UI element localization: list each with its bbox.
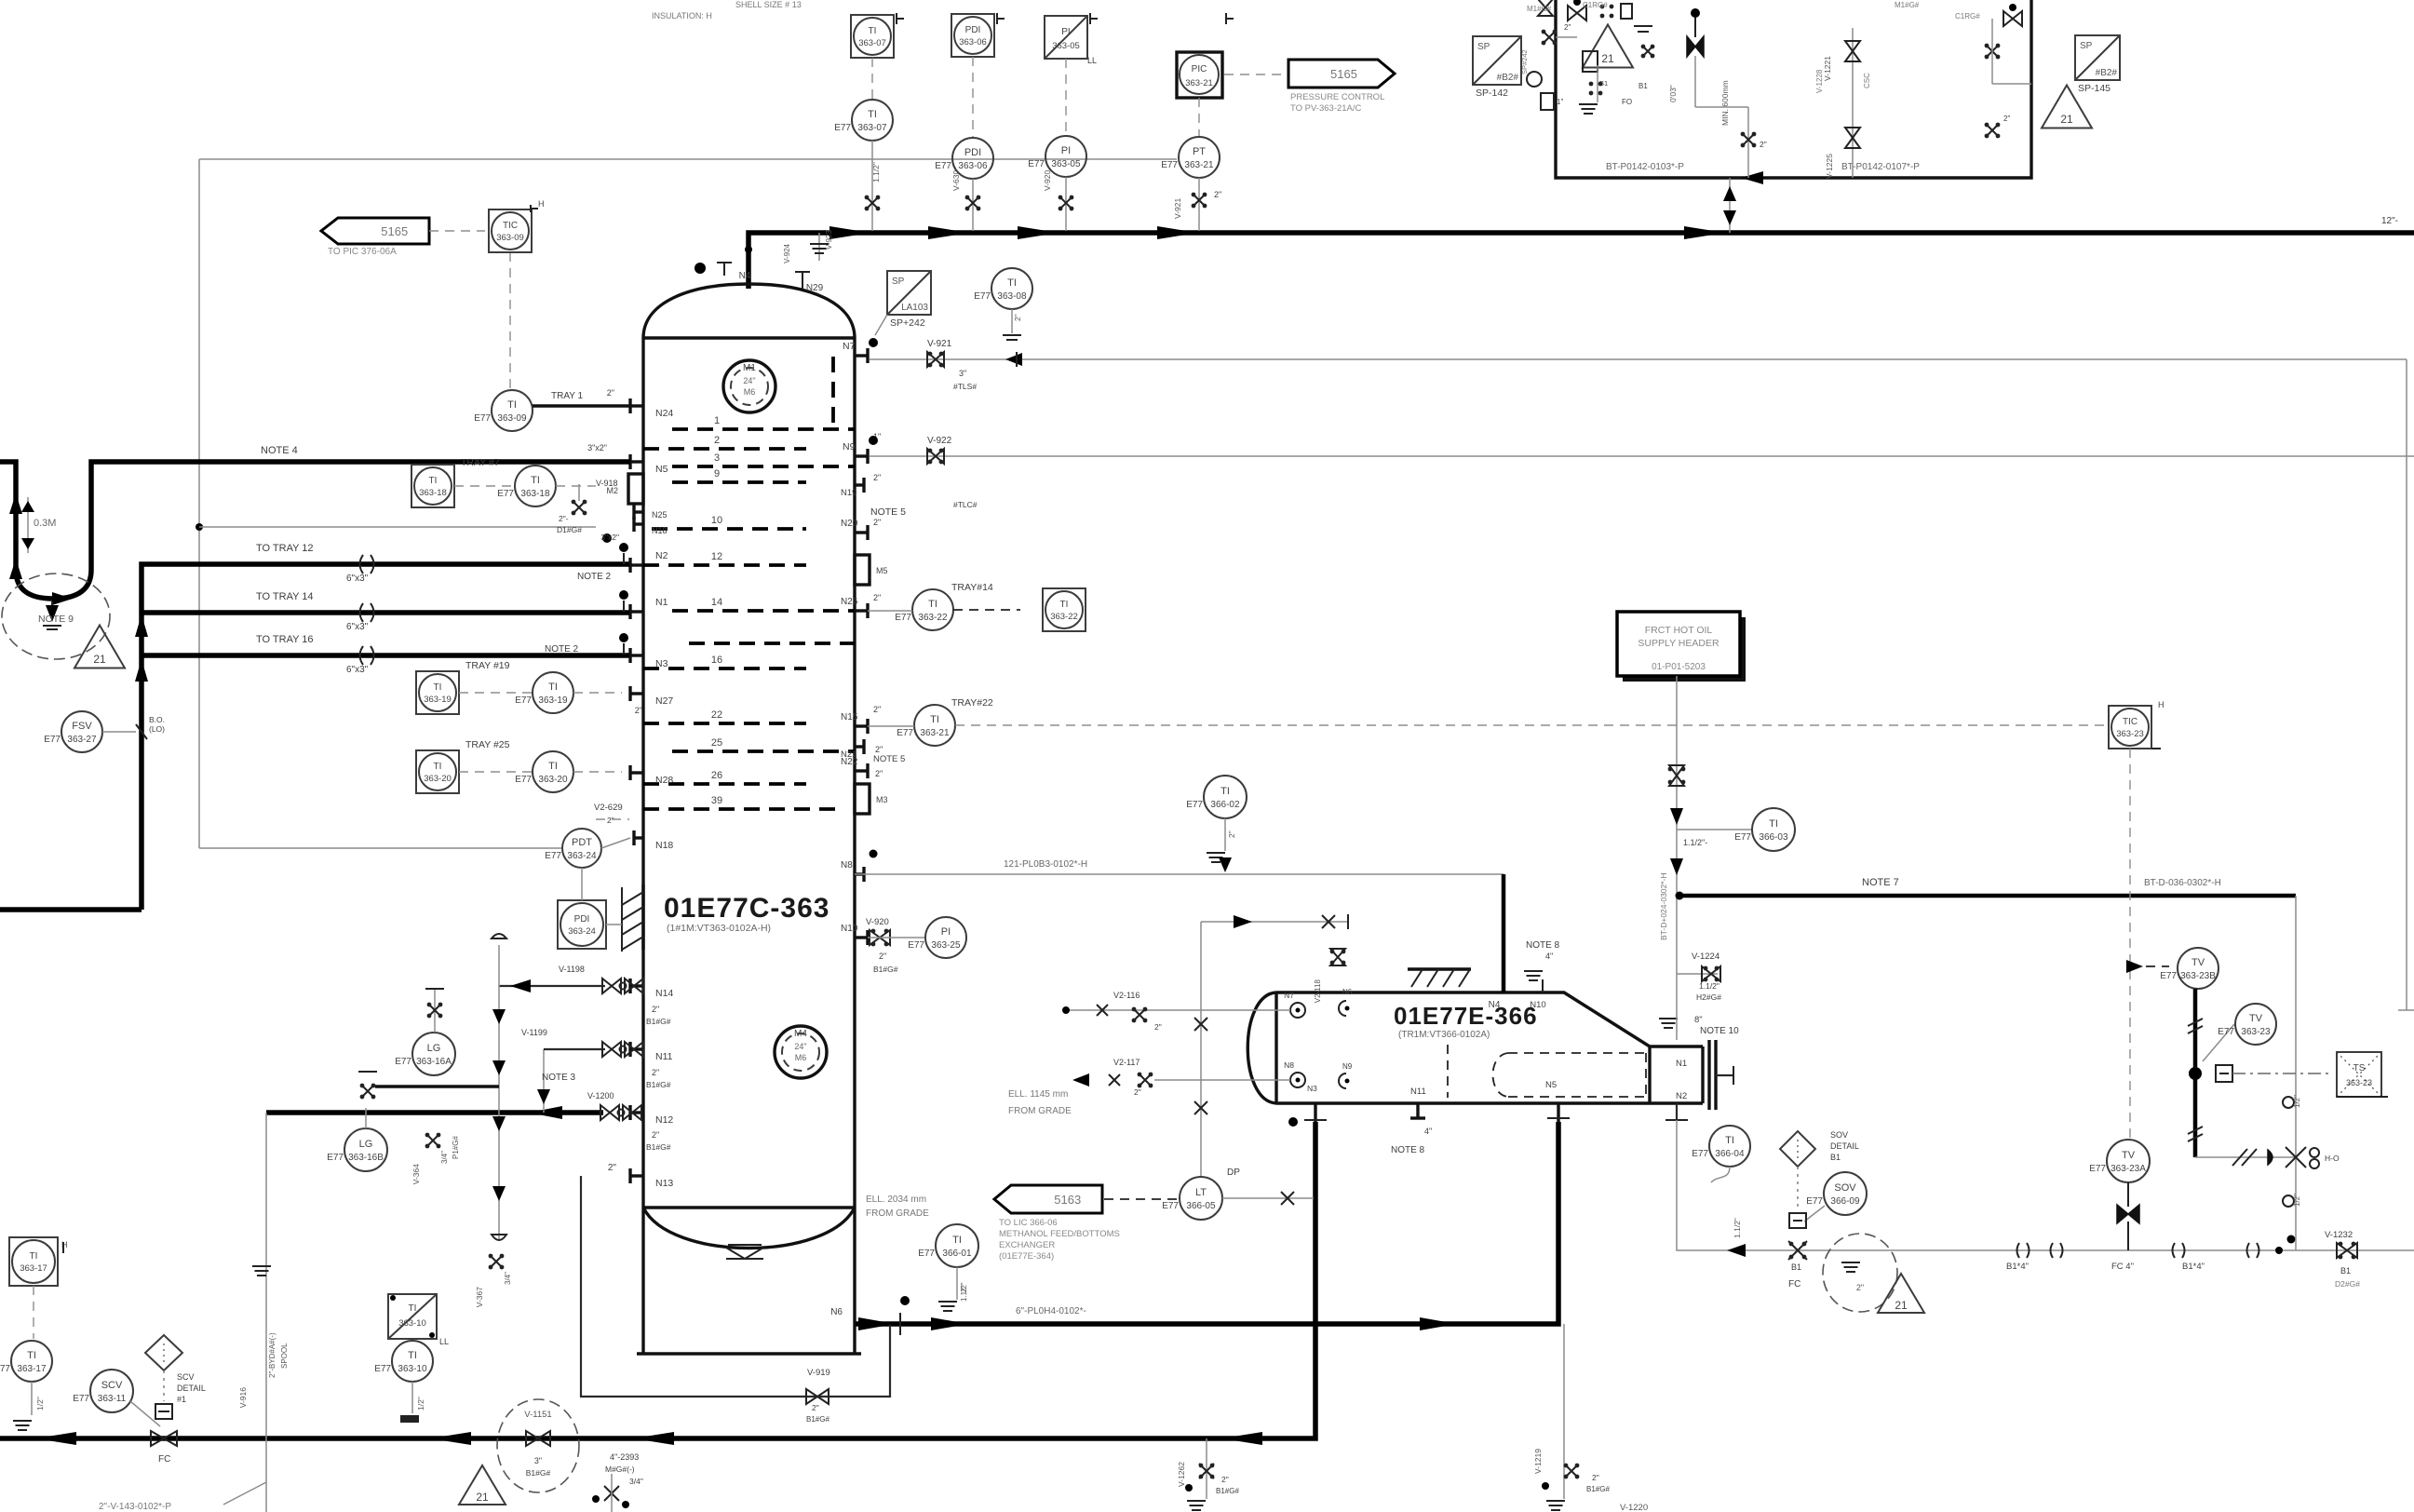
instrument TS 363-23 square [2337, 1052, 2381, 1097]
flow arrow overhead line [1157, 226, 1198, 239]
nozzle N11 bottom stub [1416, 1103, 1419, 1118]
svg-text:E77: E77 [1806, 1196, 1823, 1207]
frame line to PDT [199, 847, 562, 849]
svg-text:PDI: PDI [965, 25, 981, 35]
svg-text:N6: N6 [830, 1307, 843, 1317]
flow arrows on riser [135, 614, 148, 637]
svg-text:2": 2" [652, 1130, 659, 1140]
svg-text:2": 2" [873, 705, 881, 714]
tray 1 dashed [672, 427, 855, 431]
svg-text:E77: E77 [1734, 832, 1751, 843]
svg-text:1": 1" [1557, 98, 1563, 106]
pipe hot oil supply down to channel [1676, 676, 1678, 1040]
svg-text:2": 2" [652, 1005, 659, 1014]
vent funnel top [492, 934, 506, 938]
nozzle N10 stub and cap [1542, 979, 1544, 992]
svg-text:363-21: 363-21 [920, 728, 950, 738]
svg-text:E77: E77 [918, 1249, 935, 1259]
svg-text:E77: E77 [895, 613, 911, 623]
svg-text:NOTE 5: NOTE 5 [870, 506, 906, 518]
svg-text:B1#G#: B1#G# [873, 965, 898, 974]
svg-text:N2: N2 [1676, 1091, 1687, 1101]
svg-text:N11: N11 [655, 1051, 673, 1062]
svg-text:TV: TV [2122, 1150, 2136, 1161]
svg-text:363-08: 363-08 [997, 291, 1027, 302]
svg-text:16: 16 [711, 655, 722, 666]
tray 39 dashed [643, 807, 843, 811]
triangle 21 bottom right [1878, 1274, 1924, 1313]
svg-text:(01E77E-364): (01E77E-364) [999, 1251, 1054, 1262]
flag 5165 to PIC 376-06A [321, 218, 429, 244]
tray line dashed [689, 641, 855, 645]
pipe BT-P0142 bypass header [1556, 0, 2031, 178]
instrument TI E77 363-08 [991, 268, 1032, 309]
svg-text:366-03: 366-03 [1759, 832, 1788, 843]
svg-text:1.1/2": 1.1/2" [1733, 1218, 1742, 1238]
instrument SCV E77 363-11 [90, 1370, 133, 1412]
relief fitting on dome [818, 233, 820, 261]
dashed connector flag to TIC [429, 230, 485, 232]
pipe hot oil return bottom [1677, 1120, 2414, 1250]
instrument PT E77 363-21 [1198, 98, 1200, 137]
nozzle N13 [630, 1174, 643, 1177]
svg-text:INSULATION: H: INSULATION: H [652, 11, 712, 20]
lower gauge connection [375, 1085, 499, 1088]
svg-text:C1RG#: C1RG# [1955, 12, 1980, 20]
cloud V-1151 [497, 1399, 579, 1492]
svg-text:BT-D-036-0302*-H: BT-D-036-0302*-H [2144, 878, 2221, 888]
svg-text:21: 21 [93, 653, 106, 666]
svg-text:SP#242: SP#242 [1520, 49, 1529, 74]
tray 26 dashed [643, 782, 806, 786]
nozzle N9 [855, 454, 868, 457]
svg-text:TI: TI [507, 399, 517, 411]
svg-text:363-27: 363-27 [67, 735, 97, 745]
FSV instrument [61, 711, 102, 752]
svg-text:363-24: 363-24 [568, 926, 596, 937]
instrument PDI 363-06 pair [951, 14, 994, 57]
svg-text:2": 2" [1134, 1087, 1141, 1097]
svg-text:363-18: 363-18 [419, 488, 447, 498]
diamond interlock B1 [1780, 1131, 1815, 1167]
svg-text:H: H [2158, 700, 2165, 709]
svg-text:4": 4" [1545, 952, 1553, 961]
riser from NOTE3 line [543, 1049, 545, 1113]
column dome top head [643, 284, 855, 338]
svg-text:363-10: 363-10 [398, 1364, 427, 1374]
svg-text:V-916: V-916 [238, 1387, 248, 1408]
svg-text:LG: LG [359, 1139, 373, 1150]
nozzle N14 [630, 984, 643, 987]
tray25 pair instruments [416, 750, 459, 793]
valve cluster top right [1852, 28, 1854, 178]
pipe NOTE 7 hot oil return [1677, 894, 2296, 898]
pipe N11 to NOTE3 [544, 1048, 605, 1050]
svg-text:NOTE 2: NOTE 2 [577, 572, 612, 582]
instrument tap below U [51, 601, 53, 614]
H flags on top row [896, 13, 897, 24]
valve on hot oil line [1669, 765, 1684, 786]
svg-text:B1#G#: B1#G# [1586, 1485, 1610, 1493]
tray7 pair instruments [411, 465, 454, 507]
svg-text:2": 2" [2003, 115, 2010, 123]
pipe feed line NOTE 4 with U seal [0, 462, 630, 599]
svg-text:LG: LG [427, 1043, 441, 1054]
svg-text:N1: N1 [655, 597, 668, 608]
svg-text:363-10: 363-10 [398, 1318, 426, 1329]
svg-text:2": 2" [652, 1068, 659, 1077]
instrument PDI 363-24 square [558, 900, 606, 949]
svg-text:NOTE 5: NOTE 5 [873, 754, 905, 764]
svg-text:DETAIL: DETAIL [1830, 1141, 1859, 1151]
svg-text:N27: N27 [655, 695, 673, 707]
frame line top [199, 158, 1177, 160]
svg-text:NOTE 7: NOTE 7 [1862, 877, 1899, 888]
svg-text:FROM GRADE: FROM GRADE [1008, 1106, 1072, 1116]
svg-text:2": 2" [875, 769, 883, 778]
svg-text:363-19: 363-19 [538, 695, 568, 706]
svg-text:E77: E77 [2160, 971, 2177, 981]
svg-text:H2#G#: H2#G# [1696, 992, 1721, 1002]
pipe to tray 12 [142, 564, 629, 910]
black dot junctions near column left nozzles [602, 533, 612, 543]
vessel internal dashed bayonet [1447, 1045, 1449, 1098]
svg-text:PDT: PDT [572, 837, 592, 848]
svg-text:V-1219: V-1219 [1533, 1449, 1543, 1474]
svg-text:21: 21 [1601, 52, 1614, 65]
svg-text:M5: M5 [876, 566, 888, 575]
riser to N4 [855, 873, 1504, 875]
svg-text:363-21: 363-21 [1184, 160, 1214, 170]
svg-text:N10: N10 [1530, 1000, 1545, 1010]
vessel face nozzle N7 [1290, 1003, 1305, 1018]
svg-text:V-923: V-923 [825, 230, 833, 250]
svg-text:SP+242: SP+242 [890, 317, 925, 329]
svg-text:363-05: 363-05 [1052, 41, 1080, 51]
svg-text:TI: TI [928, 599, 937, 610]
svg-text:01E77C-363: 01E77C-363 [664, 893, 829, 924]
vortex breaker in bottom head [726, 1248, 763, 1259]
svg-text:4"-2393: 4"-2393 [610, 1452, 639, 1462]
svg-text:N6: N6 [1342, 988, 1353, 996]
svg-text:E77: E77 [1692, 1149, 1708, 1159]
svg-text:PT: PT [1193, 146, 1206, 157]
svg-text:FROM GRADE: FROM GRADE [866, 1208, 929, 1219]
svg-text:TO TRAY 16: TO TRAY 16 [256, 634, 314, 645]
svg-text:V-921: V-921 [1173, 198, 1182, 219]
svg-text:21: 21 [476, 1491, 489, 1504]
svg-text:24": 24" [743, 376, 755, 385]
tray14 pair instruments [912, 589, 953, 630]
svg-text:363-06: 363-06 [959, 37, 987, 47]
flow arrow U bottom [52, 592, 73, 605]
svg-text:PIC: PIC [1192, 64, 1207, 74]
svg-text:N10: N10 [841, 924, 858, 934]
svg-text:P1#G#: P1#G# [452, 1136, 460, 1159]
valve V-919 [806, 1389, 829, 1404]
diamond interlock [145, 1335, 182, 1370]
svg-text:V-1200: V-1200 [587, 1091, 614, 1100]
instrument TV E77 363-23A [2107, 1140, 2150, 1182]
svg-text:10: 10 [711, 515, 722, 526]
triangle 21 bottom [459, 1465, 506, 1505]
svg-text:E77: E77 [1161, 160, 1178, 170]
svg-text:363-22: 363-22 [918, 613, 948, 623]
svg-text:FO: FO [1622, 98, 1632, 106]
pipe column bottoms to vessel N5 [856, 1122, 1558, 1324]
svg-text:V-367: V-367 [475, 1287, 484, 1307]
instrument TI E77 366-03 [1677, 829, 1753, 830]
svg-text:SP-142: SP-142 [1476, 88, 1508, 99]
svg-text:3/4": 3/4" [440, 1151, 449, 1164]
svg-text:2: 2 [714, 435, 720, 446]
nozzle N24 [630, 404, 643, 407]
spool line down from N12 line [265, 1113, 267, 1512]
svg-text:NOTE 10: NOTE 10 [1700, 1026, 1739, 1036]
svg-text:1/2": 1/2" [2293, 1194, 2301, 1207]
svg-text:V-630: V-630 [951, 170, 961, 191]
svg-text:363-07: 363-07 [858, 38, 886, 48]
svg-text:363-20: 363-20 [424, 774, 452, 784]
svg-text:V-920: V-920 [866, 917, 889, 927]
small circles half inch taps [2283, 1097, 2294, 1108]
svg-text:N5: N5 [1545, 1080, 1557, 1090]
svg-text:TO TRAY 14: TO TRAY 14 [256, 591, 314, 602]
svg-text:N1: N1 [1676, 1059, 1687, 1069]
svg-text:TRAY #7: TRAY #7 [461, 457, 500, 468]
drain below N5 riser [1563, 1324, 1565, 1499]
svg-text:3/4": 3/4" [504, 1272, 512, 1285]
svg-text:N12: N12 [655, 1114, 673, 1126]
svg-text:C1RG#: C1RG# [1583, 1, 1608, 9]
svg-text:2": 2" [1214, 190, 1221, 199]
svg-text:M4: M4 [794, 1029, 807, 1039]
instrument LG E77 363-16B [344, 1128, 387, 1171]
svg-text:SPOOL: SPOOL [280, 1343, 289, 1369]
svg-text:B.O.: B.O. [149, 715, 165, 724]
flow arrow overhead line [829, 226, 870, 239]
svg-text:LA103: LA103 [901, 303, 928, 313]
svg-text:V2-629: V2-629 [594, 803, 623, 813]
svg-text:366-09: 366-09 [1830, 1196, 1860, 1207]
pipe stub to N24 [533, 404, 630, 407]
tray 14 dashed [672, 609, 855, 613]
svg-text:363-23: 363-23 [2241, 1027, 2271, 1037]
svg-text:2": 2" [607, 388, 614, 398]
svg-text:N18: N18 [652, 526, 668, 535]
svg-text:FSV: FSV [72, 721, 92, 732]
tray 16 dashed [643, 667, 806, 670]
svg-text:TI: TI [1220, 786, 1230, 797]
svg-text:363-11: 363-11 [98, 1394, 127, 1404]
svg-text:N24: N24 [655, 408, 673, 419]
svg-text:363-23: 363-23 [2116, 729, 2144, 739]
instrument TIC 363-09 shared display [489, 209, 532, 252]
nozzle N18a [634, 522, 643, 525]
elbow dot junction [2275, 1247, 2283, 1254]
cloud with cap bottom right [1823, 1234, 1897, 1312]
svg-text:TRAY#14: TRAY#14 [951, 582, 993, 593]
svg-text:PI: PI [941, 926, 951, 938]
svg-text:PDI: PDI [964, 147, 981, 158]
nozzle N16 [855, 936, 868, 938]
svg-text:N4: N4 [1489, 1000, 1501, 1010]
box FRCT HOT OIL SUPPLY HEADER [1623, 617, 1746, 682]
svg-text:2"-: 2"- [559, 514, 569, 523]
svg-text:DP: DP [1227, 1168, 1240, 1178]
pipe overhead vapor main line [748, 233, 2414, 289]
svg-text:FC: FC [1788, 1279, 1800, 1289]
svg-text:2": 2" [875, 745, 883, 754]
column bottom tangent line [643, 1206, 855, 1208]
gauge valve cluster V-364 [425, 1133, 430, 1138]
nozzle N18 [634, 836, 643, 839]
nozzle N12 [630, 1111, 643, 1114]
svg-text:2"-BYD#A#(-): 2"-BYD#A#(-) [268, 1332, 276, 1378]
svg-text:2": 2" [1227, 830, 1236, 838]
svg-text:N26: N26 [841, 597, 858, 607]
standpipe for level bridle [498, 945, 500, 1240]
svg-text:N28: N28 [655, 775, 673, 786]
svg-text:NOTE 8: NOTE 8 [1526, 940, 1560, 951]
svg-text:M1#G#: M1#G# [1895, 1, 1920, 9]
flow arrows bottoms line [35, 1432, 76, 1445]
svg-text:E77: E77 [474, 413, 491, 424]
pipe from NOTE7 corner down [2295, 896, 2297, 1236]
column top tangent weld line [643, 336, 855, 339]
svg-text:N2: N2 [655, 550, 668, 561]
valve dots pair mid manifold [1985, 123, 1989, 128]
svg-text:N15: N15 [841, 712, 858, 722]
flow arrow on bypass header [1741, 171, 1763, 184]
svg-text:E77: E77 [73, 1394, 89, 1404]
svg-text:SOV: SOV [1834, 1182, 1856, 1194]
svg-text:363-19: 363-19 [424, 695, 452, 705]
svg-text:SP-145: SP-145 [2078, 83, 2111, 94]
flow arrow overhead line [1684, 226, 1725, 239]
svg-text:TRAY#22: TRAY#22 [951, 697, 993, 709]
svg-text:0.3M: 0.3M [34, 518, 56, 529]
vessel N5 bottom stub [1557, 1103, 1559, 1122]
flange tick on N6 line [899, 1313, 901, 1335]
svg-text:#1: #1 [177, 1395, 186, 1404]
svg-text:#TLC#: #TLC# [953, 500, 978, 509]
svg-text:N5: N5 [655, 464, 668, 475]
svg-text:121-PL0B3-0102*-H: 121-PL0B3-0102*-H [1004, 859, 1087, 870]
flag 5165 pressure control right [1288, 60, 1395, 88]
svg-text:N8: N8 [841, 860, 853, 871]
svg-text:363-21: 363-21 [1185, 78, 1213, 88]
arrows hot oil line [1670, 808, 1683, 825]
svg-text:363-17: 363-17 [20, 1263, 47, 1274]
tray 2 dashed [643, 447, 806, 451]
svg-text:V-364: V-364 [411, 1164, 421, 1184]
svg-text:N3: N3 [655, 658, 668, 669]
svg-text:363-24: 363-24 [567, 851, 597, 861]
side manhole M5 [855, 555, 870, 585]
svg-text:TI: TI [429, 476, 438, 486]
vessel face nozzle N3 [1290, 1073, 1305, 1087]
svg-text:3"x2": 3"x2" [600, 533, 619, 542]
svg-text:2": 2" [1760, 140, 1767, 149]
svg-text:CSC: CSC [1863, 73, 1871, 88]
frame line left vertical [198, 159, 200, 848]
svg-text:2": 2" [1154, 1022, 1162, 1032]
side manhole M2 [628, 474, 643, 504]
svg-text:TO PV-363-21A/C: TO PV-363-21A/C [1290, 103, 1362, 114]
control valve butterfly top [1687, 36, 1704, 57]
vessel left head [1247, 992, 1276, 1103]
svg-text:E77: E77 [395, 1057, 411, 1067]
svg-text:SCV: SCV [177, 1372, 195, 1382]
svg-text:2": 2" [812, 1403, 819, 1412]
tray22 instrument TI E77 363-21 [914, 705, 955, 746]
svg-text:TI: TI [408, 1350, 417, 1361]
svg-text:E77: E77 [374, 1364, 391, 1374]
svg-text:E77: E77 [44, 735, 61, 745]
svg-text:E77: E77 [2089, 1164, 2106, 1174]
svg-text:E77: E77 [1162, 1201, 1179, 1211]
svg-text:NOTE 3: NOTE 3 [542, 1073, 576, 1083]
svg-text:3": 3" [959, 369, 966, 378]
column skirt base line [637, 1352, 861, 1355]
svg-text:21: 21 [2060, 113, 2073, 126]
svg-text:22: 22 [711, 709, 722, 721]
svg-text:B1: B1 [1830, 1153, 1841, 1162]
svg-text:N8: N8 [1284, 1060, 1294, 1070]
nozzle N27 [630, 692, 643, 695]
tray19 pair instruments [416, 671, 459, 714]
ball valve with solenoid [2189, 1067, 2202, 1080]
svg-text:ELL. 1145 mm: ELL. 1145 mm [1008, 1089, 1068, 1100]
svg-text:3: 3 [714, 452, 720, 464]
svg-text:25: 25 [711, 737, 722, 749]
svg-text:TI: TI [1769, 818, 1778, 830]
svg-text:N7: N7 [843, 341, 856, 352]
svg-text:2": 2" [1856, 1283, 1864, 1292]
svg-text:LL: LL [439, 1337, 449, 1346]
nozzle N3 [630, 654, 643, 656]
nozzle N22 [855, 769, 868, 772]
valve FC X hot oil [1788, 1241, 1807, 1260]
svg-text:V2-116: V2-116 [1113, 991, 1140, 1000]
svg-text:(1#1M:VT363-0102A-H): (1#1M:VT363-0102A-H) [667, 923, 771, 934]
svg-text:363-09: 363-09 [496, 233, 524, 243]
svg-text:14: 14 [711, 597, 722, 608]
svg-text:363-17: 363-17 [17, 1364, 47, 1374]
dashed branch to TV23B [2130, 965, 2169, 967]
junction ticks at nozzle lines [623, 553, 625, 564]
angle valve H-O [2286, 1147, 2306, 1168]
pipe to tray 14 [142, 610, 629, 615]
svg-text:366-05: 366-05 [1186, 1201, 1216, 1211]
svg-text:TIC: TIC [503, 221, 518, 231]
dashed PIC to flag [1224, 74, 1287, 75]
bridle upper line [1066, 1009, 1290, 1011]
svg-text:DETAIL: DETAIL [177, 1384, 206, 1393]
svg-text:V-1225: V-1225 [1825, 154, 1834, 179]
svg-text:SP: SP [2080, 41, 2093, 51]
channel bottom stub [1676, 1103, 1678, 1120]
svg-text:V-1221: V-1221 [1823, 56, 1832, 81]
gauge drain cluster V-367 [489, 1254, 493, 1259]
valve V-921 line [870, 358, 2407, 360]
svg-text:SP: SP [892, 277, 905, 287]
svg-text:N11: N11 [1410, 1087, 1426, 1097]
svg-text:V-918: V-918 [596, 479, 618, 488]
column bottom dished head [643, 1208, 855, 1249]
flag 5163 to LIC 366-06 [994, 1185, 1102, 1213]
